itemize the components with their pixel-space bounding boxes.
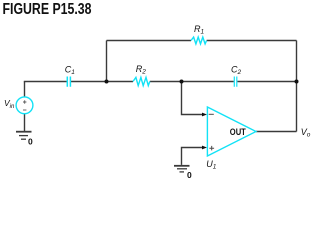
svg-text:OUT: OUT bbox=[230, 127, 246, 138]
svg-text:0: 0 bbox=[28, 136, 33, 146]
svg-text:FIGURE P15.38: FIGURE P15.38 bbox=[3, 1, 92, 18]
svg-text:0: 0 bbox=[187, 170, 192, 180]
